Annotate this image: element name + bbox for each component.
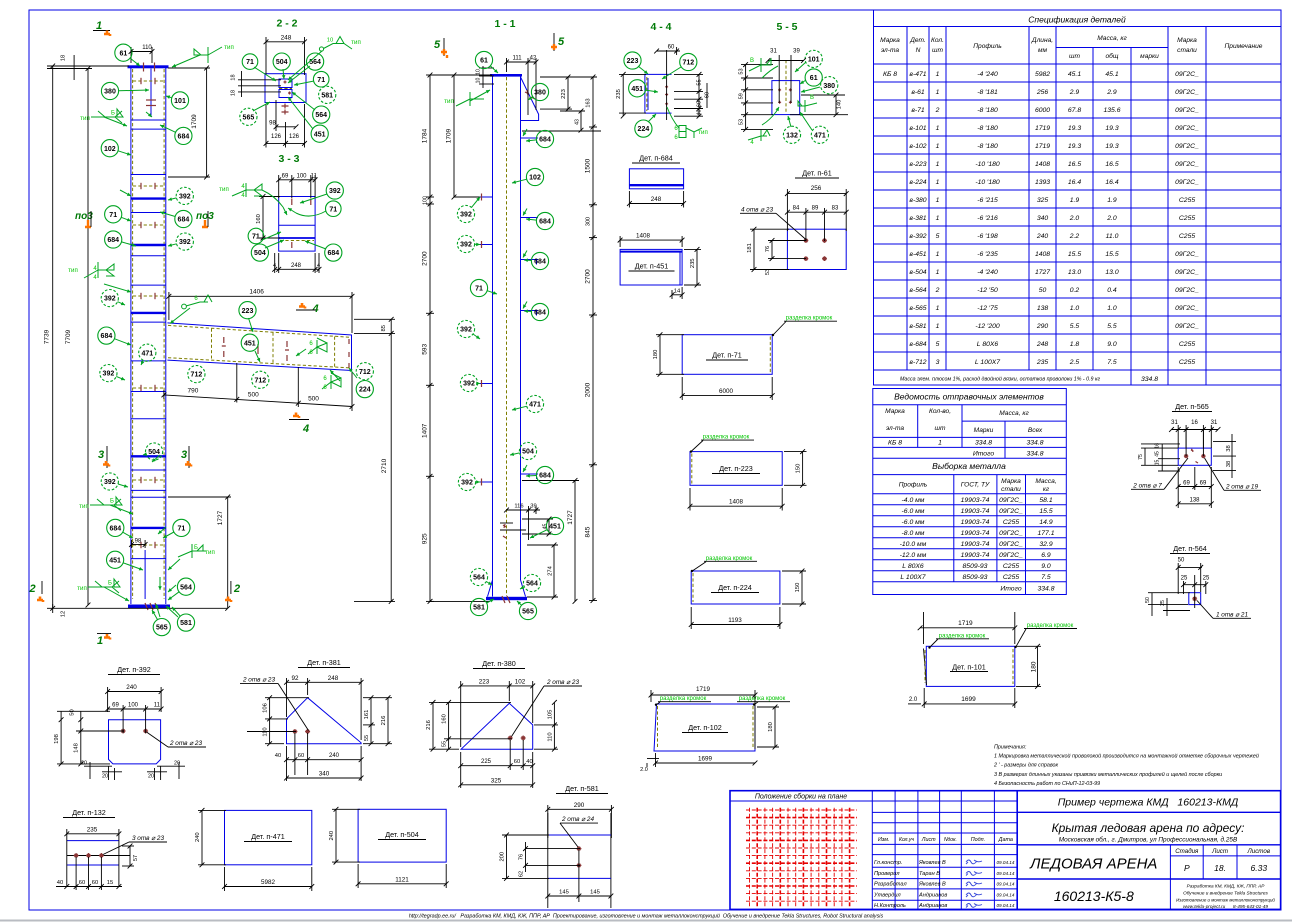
svg-text:09.04.14: 09.04.14 bbox=[997, 860, 1015, 865]
svg-text:2.0: 2.0 bbox=[640, 767, 648, 773]
svg-text:392: 392 bbox=[463, 381, 475, 388]
svg-text:Дет.: Дет. bbox=[909, 37, 926, 44]
label circle s5-380 bbox=[821, 77, 838, 94]
svg-text:177.1: 177.1 bbox=[1037, 530, 1054, 537]
svg-text:10: 10 bbox=[327, 38, 333, 44]
svg-text:43: 43 bbox=[574, 119, 580, 125]
svg-text:223: 223 bbox=[479, 678, 490, 685]
svg-text:19903-74: 19903-74 bbox=[961, 552, 990, 559]
svg-text:Марка: Марка bbox=[1177, 37, 1197, 44]
svg-text:в-451: в-451 bbox=[909, 251, 926, 258]
svg-text:1: 1 bbox=[936, 179, 940, 186]
label circle 565 bbox=[153, 619, 170, 636]
svg-text:392: 392 bbox=[179, 194, 191, 201]
svg-text:Андрианов: Андрианов bbox=[918, 903, 947, 909]
svg-text:71: 71 bbox=[252, 234, 260, 241]
svg-text:3: 3 bbox=[936, 359, 940, 366]
svg-text:98: 98 bbox=[135, 539, 142, 545]
svg-text:Н.Контроль: Н.Контроль bbox=[874, 903, 906, 909]
svg-text:60: 60 bbox=[514, 759, 520, 765]
4-4 channel outline bbox=[645, 74, 672, 113]
svg-text:84: 84 bbox=[793, 206, 800, 212]
svg-text:92: 92 bbox=[291, 675, 299, 682]
svg-text:6000: 6000 bbox=[1035, 107, 1050, 114]
svg-text:248: 248 bbox=[291, 263, 302, 269]
svg-text:Всех: Всех bbox=[1028, 427, 1043, 434]
svg-text:-6 ′216: -6 ′216 bbox=[977, 215, 998, 222]
svg-text:Разработка КМ, КМД, КЖ, ППР, А: Разработка КМ, КМД, КЖ, ППР, АР bbox=[1187, 884, 1266, 889]
svg-text:105: 105 bbox=[547, 710, 553, 720]
svg-text:2: 2 bbox=[29, 583, 36, 595]
svg-text:684: 684 bbox=[178, 134, 190, 141]
svg-text:1: 1 bbox=[936, 269, 940, 276]
svg-text:09Г2С_: 09Г2С_ bbox=[1175, 107, 1199, 114]
beam top chord bbox=[167, 323, 352, 335]
svg-text:N: N bbox=[916, 47, 921, 54]
label circle s3-504 bbox=[251, 244, 268, 261]
svg-text:Обучение и внедрение Tekla Str: Обучение и внедрение Tekla Structures bbox=[1183, 891, 1268, 896]
svg-text:в-71: в-71 bbox=[911, 107, 925, 114]
svg-text:Выборка металла: Выборка металла bbox=[932, 461, 1006, 471]
svg-text:13.0: 13.0 bbox=[1068, 269, 1081, 276]
svg-text:67.8: 67.8 bbox=[1068, 107, 1081, 114]
svg-text:18: 18 bbox=[231, 74, 237, 80]
svg-text:18: 18 bbox=[231, 90, 237, 96]
svg-text:С255: С255 bbox=[1179, 215, 1195, 222]
svg-text:1193: 1193 bbox=[728, 617, 742, 624]
label circle c11-392b bbox=[458, 473, 475, 490]
svg-text:тип: тип bbox=[444, 98, 454, 105]
svg-text:2 отв ⌀ 19: 2 отв ⌀ 19 bbox=[1225, 484, 1258, 491]
svg-text:3 - 3: 3 - 3 bbox=[278, 153, 299, 165]
ground / datum line bbox=[47, 607, 227, 609]
svg-text:110: 110 bbox=[547, 732, 553, 741]
svg-text:471: 471 bbox=[814, 132, 826, 139]
p-61 left dims bbox=[750, 229, 806, 269]
svg-text:09Г2С_: 09Г2С_ bbox=[1175, 89, 1199, 96]
svg-text:В: В bbox=[750, 58, 754, 64]
svg-text:2.9: 2.9 bbox=[1106, 89, 1117, 96]
4-4 right dims bbox=[674, 74, 707, 116]
svg-text:Дет. п-581: Дет. п-581 bbox=[565, 784, 598, 793]
beam dim 1406 bbox=[169, 292, 352, 333]
svg-text:Примечание: Примечание bbox=[1225, 43, 1263, 50]
svg-text:40: 40 bbox=[275, 753, 281, 759]
label circle c11-684b bbox=[536, 212, 553, 229]
svg-text:тип: тип bbox=[224, 44, 234, 51]
label circle c11-102 bbox=[526, 168, 543, 185]
svg-text:Б: Б bbox=[110, 499, 114, 505]
svg-text:55: 55 bbox=[442, 741, 448, 747]
svg-text:69: 69 bbox=[282, 173, 289, 179]
svg-text:45: 45 bbox=[543, 524, 549, 530]
svg-text:55: 55 bbox=[697, 79, 703, 85]
svg-text:59: 59 bbox=[739, 93, 745, 99]
svg-text:2.0: 2.0 bbox=[1106, 215, 1117, 222]
svg-text:Дет. п-224: Дет. п-224 bbox=[718, 583, 751, 592]
label circle c11-471 bbox=[526, 395, 543, 412]
svg-text:684: 684 bbox=[539, 137, 551, 144]
svg-text:392: 392 bbox=[460, 327, 472, 334]
svg-text:274: 274 bbox=[548, 565, 554, 575]
svg-text:126: 126 bbox=[289, 134, 300, 140]
svg-text:5 - 5: 5 - 5 bbox=[776, 21, 797, 33]
bottom inner stiffener bbox=[144, 550, 146, 599]
svg-text:4: 4 bbox=[312, 303, 319, 315]
svg-text:2.2: 2.2 bbox=[1069, 233, 1080, 240]
svg-text:2: 2 bbox=[233, 583, 240, 595]
2-2 weld symbol top right bbox=[319, 37, 352, 52]
svg-text:С255: С255 bbox=[1003, 563, 1019, 570]
svg-text:5.5: 5.5 bbox=[1070, 323, 1080, 330]
svg-text:в-565: в-565 bbox=[909, 305, 926, 312]
svg-text:С255: С255 bbox=[1179, 359, 1195, 366]
page bottom edge line bbox=[0, 920, 1292, 922]
detail p-102 bbox=[654, 704, 755, 751]
svg-text:в-224: в-224 bbox=[909, 179, 926, 186]
svg-text:100: 100 bbox=[423, 196, 429, 205]
svg-text:4 Безопасность работ по СНиП-: 4 Безопасность работ по СНиП-12-03-99 bbox=[994, 781, 1100, 787]
svg-text:4 - 4: 4 - 4 bbox=[650, 21, 671, 33]
svg-text:40: 40 bbox=[526, 759, 532, 765]
svg-text:19.3: 19.3 bbox=[1068, 125, 1081, 132]
label circle s3-71a bbox=[326, 201, 342, 217]
svg-text:2.0: 2.0 bbox=[909, 697, 918, 703]
svg-text:1719: 1719 bbox=[1035, 143, 1050, 150]
svg-text:09.04.14: 09.04.14 bbox=[997, 893, 1015, 898]
label circle s2-565 bbox=[240, 108, 257, 125]
svg-text:0.4: 0.4 bbox=[1107, 287, 1117, 294]
svg-text:09Г2С_: 09Г2С_ bbox=[1175, 269, 1199, 276]
section 3-3 plate outline bbox=[279, 197, 315, 252]
svg-text:Гл.констр.: Гл.констр. bbox=[874, 860, 902, 866]
svg-text:09Г2С_: 09Г2С_ bbox=[999, 497, 1023, 504]
label circle 451r bbox=[107, 551, 124, 568]
svg-text:451: 451 bbox=[244, 340, 256, 347]
svg-text:Дет. п-471: Дет. п-471 bbox=[251, 832, 284, 841]
1-1 column edges bbox=[493, 75, 521, 597]
svg-text:Листов: Листов bbox=[1247, 848, 1271, 855]
1-1 top dims bbox=[507, 58, 537, 115]
svg-text:25: 25 bbox=[1181, 576, 1188, 582]
svg-text:Р: Р bbox=[1184, 863, 1190, 873]
svg-text:69: 69 bbox=[112, 703, 119, 709]
svg-text:235: 235 bbox=[690, 258, 696, 268]
svg-text:19903-74: 19903-74 bbox=[961, 508, 990, 515]
1-1 bottom flare + base bbox=[488, 580, 526, 597]
svg-text:180: 180 bbox=[1030, 661, 1037, 672]
svg-text:19903-74: 19903-74 bbox=[961, 530, 990, 537]
svg-text:-8 ′180: -8 ′180 bbox=[977, 107, 998, 114]
beam right dims 85 / 2710 bbox=[354, 319, 395, 601]
svg-text:1: 1 bbox=[936, 125, 940, 132]
svg-text:19.3: 19.3 bbox=[1105, 125, 1118, 132]
detail p-451 bbox=[620, 249, 682, 285]
svg-text:-4.0 мм: -4.0 мм bbox=[902, 497, 925, 504]
svg-text:334.8: 334.8 bbox=[1141, 376, 1158, 383]
svg-text:Марка: Марка bbox=[1001, 478, 1021, 485]
svg-text:1727: 1727 bbox=[567, 510, 574, 525]
svg-text:1.9: 1.9 bbox=[1107, 197, 1117, 204]
svg-text:102: 102 bbox=[515, 678, 526, 685]
label circle 102 bbox=[101, 140, 118, 157]
svg-text:161: 161 bbox=[364, 710, 370, 720]
svg-text:в-223: в-223 bbox=[909, 161, 926, 168]
svg-text:8509-93: 8509-93 bbox=[963, 574, 988, 581]
svg-text:75: 75 bbox=[1138, 454, 1144, 460]
label circle s2-451 bbox=[311, 125, 328, 142]
label circle c11-684e bbox=[536, 466, 553, 483]
svg-text:181: 181 bbox=[747, 243, 753, 253]
svg-text:L 100Х7: L 100Х7 bbox=[900, 574, 925, 581]
svg-text:135.6: 135.6 bbox=[1103, 107, 1120, 114]
svg-text:Яковлев В: Яковлев В bbox=[918, 882, 946, 888]
svg-text:200: 200 bbox=[500, 852, 506, 862]
svg-text:392: 392 bbox=[104, 479, 116, 486]
detail p-504 bbox=[358, 809, 446, 862]
svg-text:-12 ′50: -12 ′50 bbox=[977, 287, 998, 294]
svg-text:шт: шт bbox=[935, 425, 946, 432]
svg-text:684: 684 bbox=[534, 310, 546, 317]
svg-text:14: 14 bbox=[674, 288, 681, 294]
svg-text:-6 ′235: -6 ′235 bbox=[977, 251, 998, 258]
label circle c11-61 bbox=[475, 51, 492, 68]
svg-text:шт: шт bbox=[932, 47, 943, 54]
svg-text:392: 392 bbox=[461, 480, 473, 487]
svg-text:50: 50 bbox=[1145, 597, 1151, 603]
svg-text:ЛЕДОВАЯ АРЕНА: ЛЕДОВАЯ АРЕНА bbox=[1029, 856, 1157, 873]
5-5 weld symbols bbox=[749, 58, 771, 72]
svg-text:13.0: 13.0 bbox=[1105, 269, 1118, 276]
svg-text:565: 565 bbox=[156, 625, 168, 632]
svg-text:19903-74: 19903-74 bbox=[961, 497, 990, 504]
svg-text:451: 451 bbox=[109, 557, 121, 564]
svg-text:Кол-во,: Кол-во, bbox=[929, 408, 951, 415]
svg-text:Дет. п-504: Дет. п-504 bbox=[385, 830, 418, 839]
svg-text:2: 2 bbox=[935, 287, 940, 294]
1-1 bottom bolt detail dims bbox=[500, 523, 526, 530]
svg-text:76: 76 bbox=[519, 854, 525, 860]
svg-text:Спецификация деталей: Спецификация деталей bbox=[1028, 15, 1126, 25]
svg-text:138: 138 bbox=[1037, 305, 1049, 312]
svg-text:С255: С255 bbox=[1003, 574, 1019, 581]
svg-text:6.9: 6.9 bbox=[1041, 552, 1051, 559]
label circle s5-101 bbox=[805, 50, 822, 67]
svg-text:9.0: 9.0 bbox=[1107, 341, 1117, 348]
internal diaphragms / ribs bbox=[131, 120, 166, 559]
svg-text:340: 340 bbox=[1037, 215, 1049, 222]
svg-text:334.8: 334.8 bbox=[1037, 586, 1054, 593]
svg-text:240: 240 bbox=[1036, 233, 1049, 240]
svg-text:0.2: 0.2 bbox=[1070, 287, 1080, 294]
svg-text:стали: стали bbox=[1177, 47, 1197, 54]
label circle s5-132 bbox=[783, 126, 800, 143]
svg-text:564: 564 bbox=[473, 575, 485, 582]
svg-text:09Г2С_: 09Г2С_ bbox=[999, 508, 1023, 515]
svg-text:в-581: в-581 bbox=[909, 323, 926, 330]
svg-text:Подп.: Подп. bbox=[971, 837, 985, 843]
svg-text:392: 392 bbox=[460, 242, 472, 249]
svg-text:248: 248 bbox=[328, 675, 339, 682]
svg-text:235: 235 bbox=[1036, 359, 1049, 366]
svg-text:564: 564 bbox=[526, 581, 538, 588]
svg-text:по3: по3 bbox=[75, 211, 93, 222]
svg-text:-4 ′240: -4 ′240 bbox=[977, 71, 998, 78]
svg-text:стали: стали bbox=[1001, 486, 1021, 493]
svg-text:40: 40 bbox=[57, 880, 63, 886]
svg-text:5: 5 bbox=[936, 233, 940, 240]
svg-text:тип: тип bbox=[351, 39, 361, 46]
svg-text:126: 126 bbox=[271, 134, 282, 140]
svg-text:09Г2С_: 09Г2С_ bbox=[1175, 71, 1199, 78]
label circle c11-684c bbox=[531, 252, 548, 269]
svg-text:-8 ′180: -8 ′180 bbox=[977, 125, 998, 132]
svg-text:38: 38 bbox=[1226, 461, 1232, 467]
svg-text:180: 180 bbox=[653, 350, 659, 360]
label circle s4-451 bbox=[629, 80, 646, 97]
svg-text:145: 145 bbox=[559, 890, 569, 896]
svg-text:1: 1 bbox=[938, 440, 942, 447]
beam internal stiffeners bbox=[212, 329, 335, 368]
svg-text:76: 76 bbox=[765, 246, 771, 252]
svg-text:392: 392 bbox=[329, 188, 341, 195]
svg-text:9.0: 9.0 bbox=[1041, 563, 1051, 570]
svg-text:-8.0 мм: -8.0 мм bbox=[902, 530, 925, 537]
svg-text:31: 31 bbox=[1171, 420, 1178, 426]
svg-text:Дет. п-71: Дет. п-71 bbox=[712, 351, 741, 360]
svg-text:3: 3 bbox=[98, 449, 104, 461]
svg-text:4 отв ⌀ 23: 4 отв ⌀ 23 bbox=[741, 206, 773, 213]
svg-text:565: 565 bbox=[243, 114, 255, 121]
svg-text:60: 60 bbox=[705, 92, 711, 98]
svg-text:7709: 7709 bbox=[65, 329, 72, 344]
weld splice marks (olive dashes + red ticks) bbox=[133, 78, 164, 84]
svg-text:71: 71 bbox=[329, 206, 337, 213]
svg-text:60: 60 bbox=[79, 880, 85, 886]
svg-text:09.04.14: 09.04.14 bbox=[997, 871, 1015, 876]
label circle 581 bbox=[177, 614, 194, 631]
svg-text:71: 71 bbox=[317, 77, 325, 84]
svg-text:240: 240 bbox=[126, 684, 137, 691]
top width dim 110 bbox=[131, 47, 152, 63]
label circle 712b bbox=[252, 371, 269, 388]
svg-text:225: 225 bbox=[481, 759, 492, 765]
svg-text:Дет. п-564: Дет. п-564 bbox=[1173, 544, 1206, 553]
svg-text:20: 20 bbox=[102, 774, 108, 780]
label circle c11-684d bbox=[531, 303, 548, 320]
label circle c11-392a bbox=[457, 320, 474, 337]
svg-text:325: 325 bbox=[1037, 197, 1049, 204]
svg-text:3 отв ⌀ 23: 3 отв ⌀ 23 bbox=[132, 835, 164, 842]
svg-text:-12 ′200: -12 ′200 bbox=[975, 323, 1000, 330]
svg-text:Андрианов: Андрианов bbox=[918, 893, 947, 899]
svg-text:290: 290 bbox=[574, 802, 585, 809]
svg-text:101: 101 bbox=[174, 98, 186, 105]
label circle 61 bbox=[115, 44, 132, 61]
svg-text:Разработал: Разработал bbox=[874, 882, 907, 888]
svg-text:09Г2С_: 09Г2С_ bbox=[1175, 179, 1199, 186]
svg-text:11: 11 bbox=[154, 703, 161, 709]
svg-text:8509-93: 8509-93 bbox=[963, 563, 988, 570]
label circle 380t bbox=[101, 82, 118, 99]
svg-text:50: 50 bbox=[70, 709, 76, 715]
svg-text:60: 60 bbox=[697, 101, 703, 107]
svg-text:39: 39 bbox=[793, 49, 800, 55]
svg-text:15: 15 bbox=[107, 880, 113, 886]
svg-text:Дет. п-451: Дет. п-451 bbox=[635, 262, 668, 271]
svg-text:Дет. п-132: Дет. п-132 bbox=[72, 808, 105, 817]
label circle 224 bbox=[356, 381, 373, 398]
svg-text:-6.0 мм: -6.0 мм bbox=[902, 519, 925, 526]
svg-text:1408: 1408 bbox=[729, 499, 744, 506]
svg-text:89: 89 bbox=[812, 206, 819, 212]
svg-text:325: 325 bbox=[491, 777, 502, 784]
label circle 504 bbox=[146, 443, 163, 460]
svg-text:2 отв ⌀ 7: 2 отв ⌀ 7 bbox=[1132, 483, 1162, 490]
svg-text:500: 500 bbox=[308, 396, 319, 403]
svg-text:тип: тип bbox=[219, 186, 229, 193]
svg-text:С255: С255 bbox=[1179, 233, 1195, 240]
svg-text:5.5: 5.5 bbox=[1107, 323, 1117, 330]
svg-text:5: 5 bbox=[936, 341, 940, 348]
label circle 712c bbox=[356, 363, 373, 380]
svg-text:71: 71 bbox=[475, 286, 483, 293]
svg-text:451: 451 bbox=[631, 86, 643, 93]
svg-text:240: 240 bbox=[329, 831, 335, 841]
svg-text:2 - 2: 2 - 2 bbox=[276, 18, 297, 30]
label circle 392d bbox=[100, 365, 117, 382]
svg-text:Кол.: Кол. bbox=[931, 37, 944, 44]
weld symbols left column bbox=[91, 109, 123, 123]
5-5 right dim 140 bbox=[790, 95, 848, 115]
svg-text:1784: 1784 bbox=[422, 128, 429, 143]
svg-text:290: 290 bbox=[1036, 323, 1049, 330]
svg-text:в-712: в-712 bbox=[909, 359, 926, 366]
svg-text:5982: 5982 bbox=[1035, 71, 1050, 78]
label circle 684b bbox=[175, 210, 192, 227]
1-1 top cap bbox=[490, 74, 522, 77]
svg-text:83: 83 bbox=[832, 206, 839, 212]
svg-text:-8 ′181: -8 ′181 bbox=[977, 89, 998, 96]
svg-text:L 80Х6: L 80Х6 bbox=[902, 563, 924, 570]
svg-text:Стадия: Стадия bbox=[1175, 848, 1199, 855]
label circle 223 bbox=[239, 302, 256, 319]
svg-text:564: 564 bbox=[315, 112, 327, 119]
svg-text:Таран В: Таран В bbox=[919, 871, 940, 877]
svg-text:334.8: 334.8 bbox=[1026, 451, 1043, 458]
svg-text:Профиль: Профиль bbox=[973, 43, 1002, 50]
label circle c11-392hb bbox=[457, 235, 474, 252]
svg-text:504: 504 bbox=[148, 449, 160, 456]
beam bottom dims 790/500/500 bbox=[164, 363, 352, 411]
svg-text:684: 684 bbox=[539, 219, 551, 226]
svg-text:Дет. п-684: Дет. п-684 bbox=[639, 154, 672, 163]
svg-text:69: 69 bbox=[1200, 481, 1207, 487]
svg-text:53: 53 bbox=[739, 68, 745, 74]
svg-text:09Г2С_: 09Г2С_ bbox=[999, 530, 1023, 537]
svg-text:КБ 8: КБ 8 bbox=[883, 71, 897, 78]
label circle s2-71b bbox=[313, 71, 329, 87]
svg-text:в-471: в-471 bbox=[909, 71, 926, 78]
svg-text:Московская обл., г. Дмитров, у: Московская обл., г. Дмитров, ул Професси… bbox=[1059, 836, 1238, 844]
svg-text:71: 71 bbox=[109, 212, 117, 219]
svg-text:1: 1 bbox=[936, 143, 940, 150]
svg-text:кг: кг bbox=[1043, 486, 1050, 493]
label circle c11-684a bbox=[536, 130, 553, 147]
svg-text:163: 163 bbox=[586, 98, 592, 107]
label circle s2-564b bbox=[313, 106, 330, 123]
svg-text:Дет. п-61: Дет. п-61 bbox=[802, 169, 831, 178]
